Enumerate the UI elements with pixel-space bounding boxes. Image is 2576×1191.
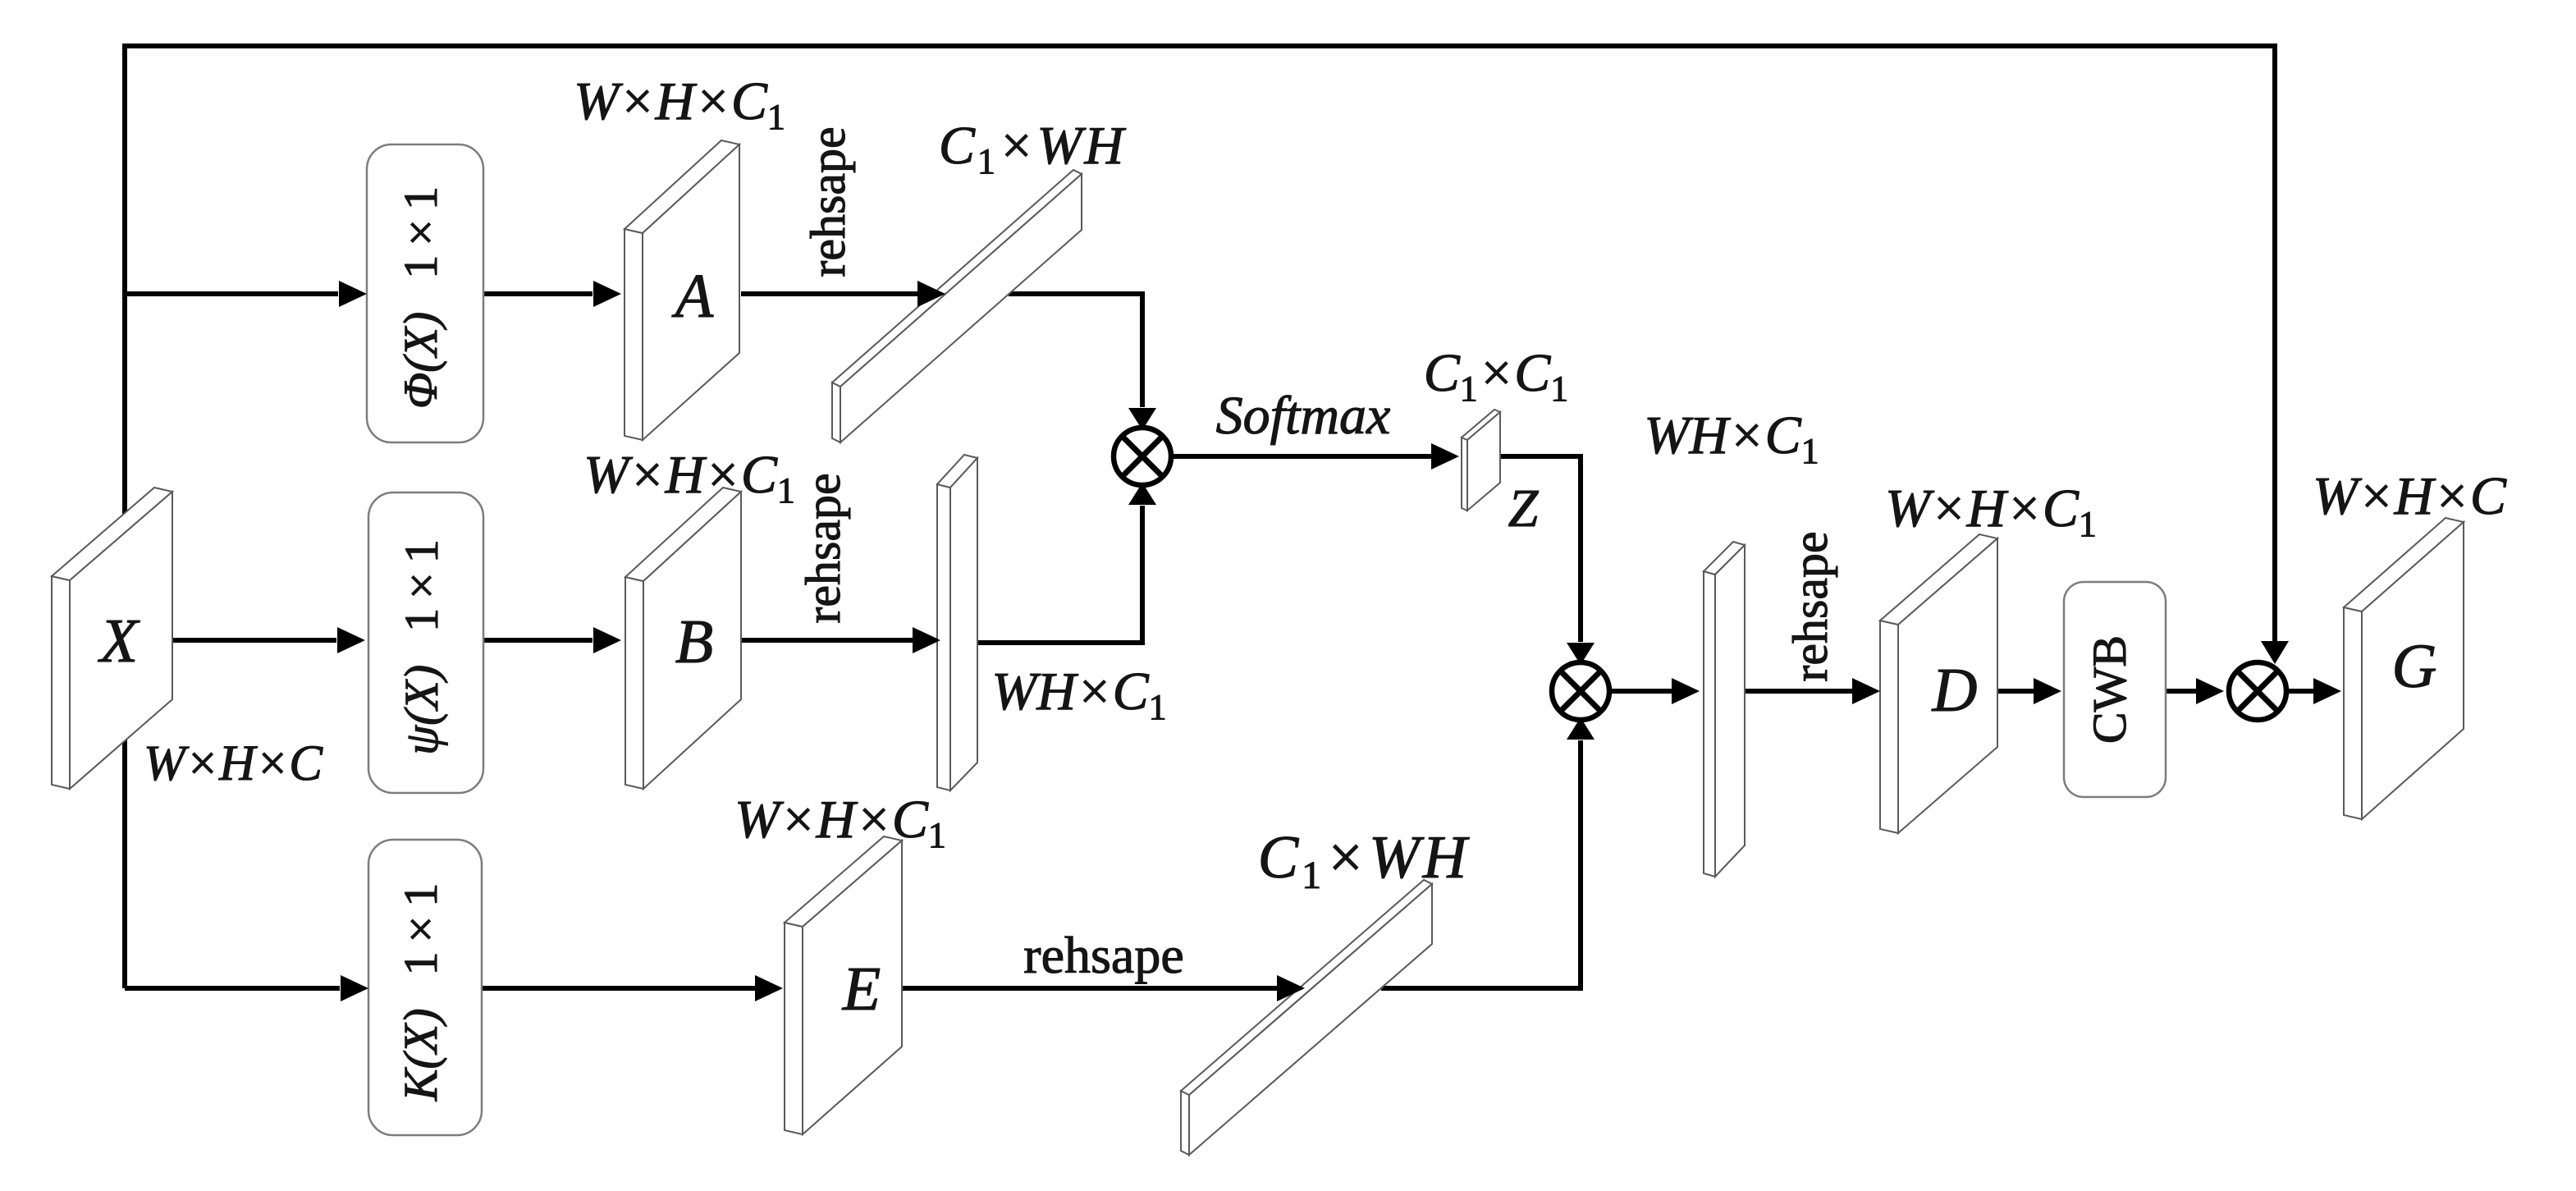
svg-text:E: E [842, 955, 881, 1024]
svg-text:WH×C1: WH×C1 [1644, 405, 1819, 471]
svg-text:C1×WH: C1×WH [1258, 824, 1470, 897]
svg-text:A: A [671, 262, 714, 331]
svg-text:rehsape: rehsape [1783, 531, 1837, 681]
svg-text:rehsape: rehsape [1023, 926, 1183, 984]
svg-text:C1×WH: C1×WH [939, 116, 1127, 181]
svg-text:Softmax: Softmax [1216, 386, 1391, 446]
svg-text:C1×C1: C1×C1 [1424, 343, 1569, 409]
svg-text:W×H×C1: W×H×C1 [583, 445, 795, 511]
svg-text:CWB: CWB [2083, 635, 2136, 744]
svg-text:W×H×C1: W×H×C1 [1885, 479, 2097, 544]
svg-text:WH×C1: WH×C1 [991, 662, 1166, 727]
svg-text:W×H×C1: W×H×C1 [574, 71, 785, 137]
svg-text:G: G [2392, 632, 2437, 701]
svg-text:B: B [675, 607, 713, 676]
svg-text:Z: Z [1508, 479, 1540, 538]
svg-text:rehsape: rehsape [796, 473, 850, 623]
svg-text:X: X [98, 607, 140, 676]
svg-text:D: D [1932, 656, 1978, 725]
svg-text:W×H×C: W×H×C [144, 736, 323, 791]
svg-text:rehsape: rehsape [801, 126, 855, 277]
svg-text:W×H×C: W×H×C [2313, 466, 2507, 526]
svg-text:W×H×C1: W×H×C1 [734, 790, 946, 855]
